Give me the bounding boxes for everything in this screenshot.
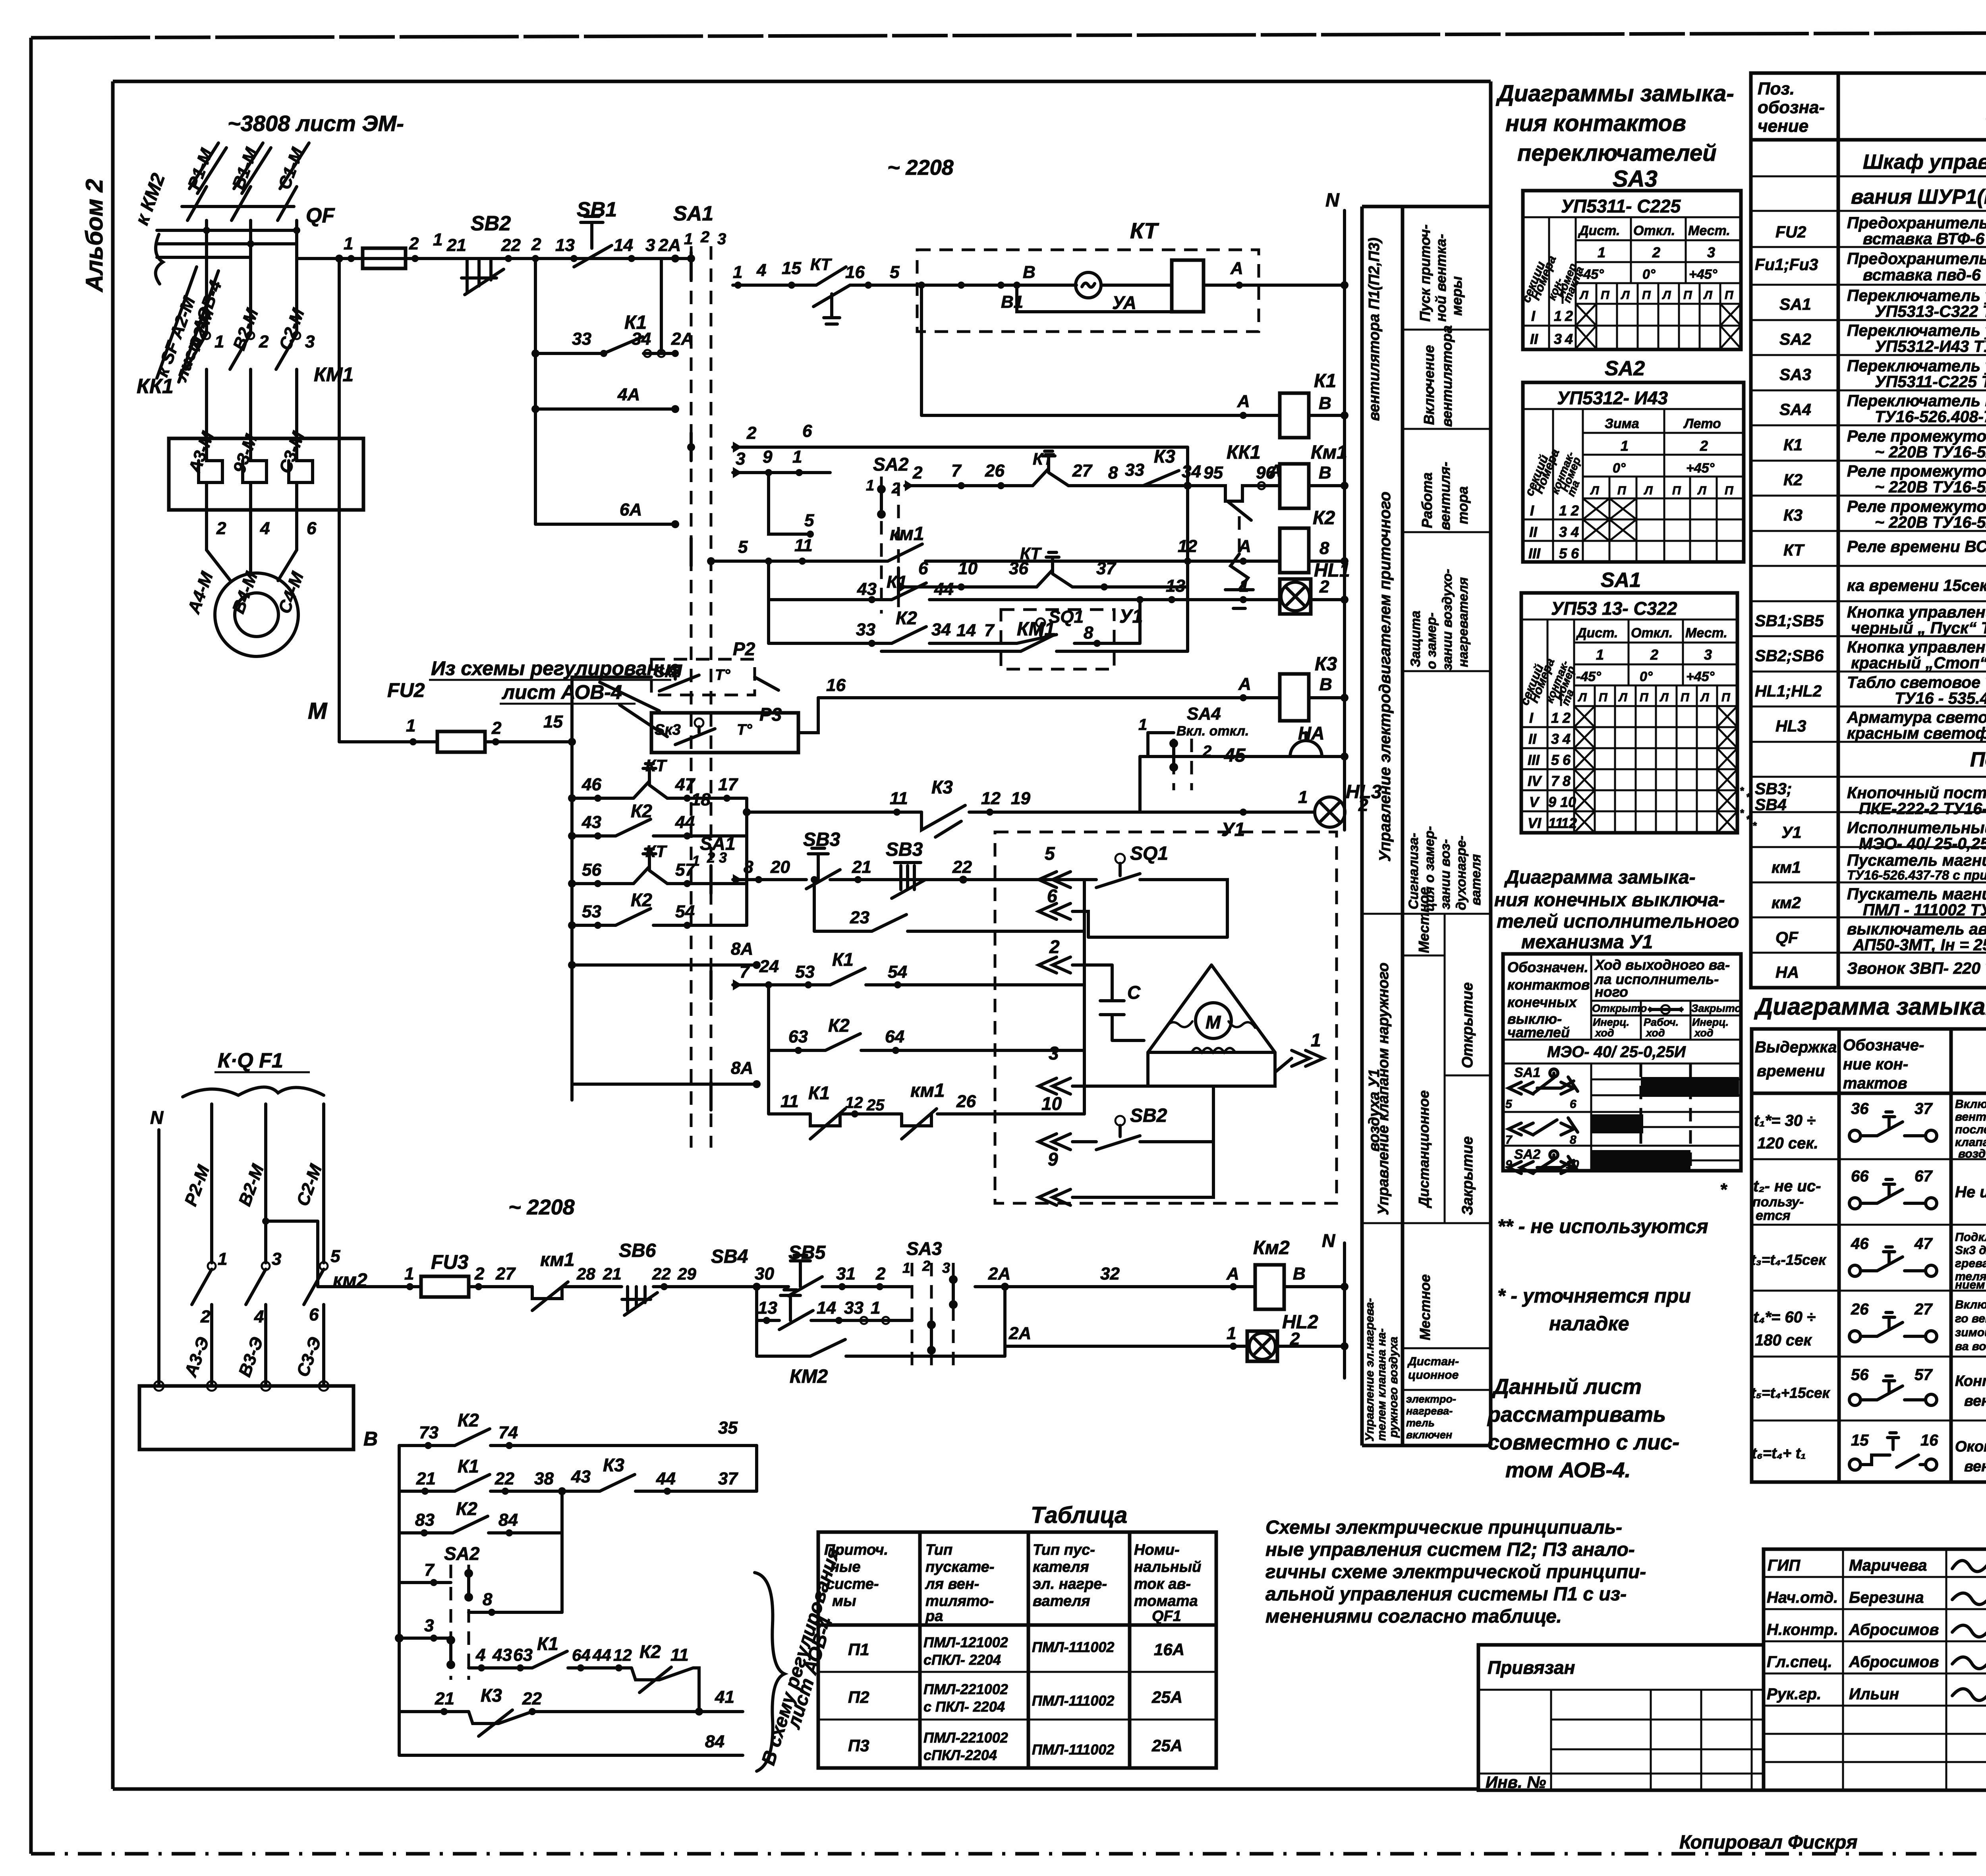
svg-text:Предохранитель прс-6-П; ~380В: Предохранитель прс-6-П; ~380В. Плавкая <box>1847 249 1986 268</box>
rung 63 K2 64 <box>769 985 1084 1050</box>
svg-text:3: 3 <box>645 235 655 255</box>
long rung 18 11 K3 12 19 HL3 <box>747 811 1315 814</box>
svg-text:чение: чение <box>1758 116 1808 136</box>
svg-text:1: 1 <box>214 332 224 351</box>
svg-text:SA3: SA3 <box>1613 166 1658 192</box>
svg-text:го вентилятора: го вентилятора <box>1955 1312 1986 1325</box>
svg-text:N: N <box>150 1107 164 1128</box>
svg-text:1: 1 <box>1596 647 1604 663</box>
svg-text:6: 6 <box>1563 752 1571 768</box>
svg-text:К1: К1 <box>832 949 854 970</box>
svg-text:46: 46 <box>582 775 601 794</box>
svg-text:Sк2: Sк2 <box>655 664 681 681</box>
svg-text:Обозначе-: Обозначе- <box>1843 1036 1924 1054</box>
svg-text:15: 15 <box>1851 1432 1869 1449</box>
svg-text:ход: ход <box>1594 1027 1614 1039</box>
svg-text:Т°: Т° <box>715 667 730 683</box>
page outer border <box>31 32 1986 38</box>
rung 2-6 <box>733 447 1188 486</box>
svg-text:1: 1 <box>902 1260 910 1276</box>
contact diagram titles <box>1495 81 1734 192</box>
svg-text:1: 1 <box>1227 1324 1236 1343</box>
svg-text:УП5311- С225: УП5311- С225 <box>1561 196 1681 216</box>
svg-text:84: 84 <box>705 1732 724 1751</box>
svg-text:Ход выходного ва-: Ход выходного ва- <box>1594 957 1730 973</box>
svg-text:5: 5 <box>804 511 814 530</box>
svg-text:Дист.: Дист. <box>1576 625 1618 641</box>
svg-text:К2: К2 <box>456 1498 477 1519</box>
svg-text:Sк3: Sк3 <box>655 722 681 738</box>
svg-text:** - не используются: ** - не используются <box>1497 1215 1708 1237</box>
svg-text:зимой (после прогре-: зимой (после прогре- <box>1955 1326 1986 1339</box>
svg-text:10: 10 <box>1560 794 1576 810</box>
svg-text:3: 3 <box>1704 647 1712 663</box>
KT contact rung (top) <box>733 284 917 287</box>
svg-text:вания ШУР1(ШУР2; ШУР3): вания ШУР1(ШУР2; ШУР3) <box>1851 185 1986 208</box>
svg-text:красный „Стоп“ ТУ16 - 6: красный „Стоп“ ТУ16 - 642.015-84 <box>1851 654 1986 672</box>
svg-text:о замер-: о замер- <box>1424 612 1439 669</box>
svg-text:км2: км2 <box>1772 894 1801 912</box>
svg-text:7: 7 <box>984 621 995 640</box>
svg-text:ТУ16-526.437-78 с приставкой П: ТУ16-526.437-78 с приставкой ПКЛ-2204; Т… <box>1847 868 1986 882</box>
svg-text:пользу-: пользу- <box>1752 1195 1804 1210</box>
svg-text:ПМЛ-121002: ПМЛ-121002 <box>923 1634 1008 1650</box>
svg-text:15: 15 <box>543 712 563 731</box>
svg-text:t₁*= 30 ÷: t₁*= 30 ÷ <box>1754 1112 1816 1129</box>
svg-text:2: 2 <box>1562 710 1571 726</box>
svg-text:Зима: Зима <box>1605 416 1639 431</box>
bottom-left relay block <box>395 1410 844 1771</box>
svg-text:56: 56 <box>1851 1366 1869 1384</box>
svg-text:ПМЛ-111002: ПМЛ-111002 <box>1032 1639 1114 1655</box>
svg-text:Включение приточно-: Включение приточно- <box>1955 1298 1986 1311</box>
svg-text:14: 14 <box>817 1298 836 1318</box>
svg-text:вставка ВТФ-6 ТУ16-521.0: вставка ВТФ-6 ТУ16-521.037-75 <box>1863 230 1986 248</box>
contactor coil KM2 <box>1255 1265 1284 1309</box>
svg-text:27: 27 <box>495 1264 516 1283</box>
svg-text:6: 6 <box>1570 1098 1576 1111</box>
svg-text:7: 7 <box>951 461 962 481</box>
svg-text:QF1: QF1 <box>1152 1608 1181 1625</box>
svg-text:Местное: Местное <box>1417 1274 1433 1340</box>
svg-text:воздуха У1: воздуха У1 <box>1366 1069 1383 1152</box>
svg-text:К3: К3 <box>1783 506 1802 524</box>
svg-text:Работа: Работа <box>1419 473 1435 528</box>
note text about P2 P3 <box>1265 1517 1646 1627</box>
svg-text:А: А <box>1230 259 1243 278</box>
rung 43 K1 44 13 1 HL1 <box>769 598 1280 601</box>
svg-text:74: 74 <box>498 1423 518 1442</box>
svg-text:Выдержка: Выдержка <box>1755 1038 1837 1056</box>
branch 23 <box>814 880 1084 931</box>
capacitor C <box>1072 965 1144 1040</box>
svg-text:КТ: КТ <box>1130 218 1159 243</box>
svg-text:Данный лист: Данный лист <box>1492 1375 1642 1399</box>
svg-text:13: 13 <box>555 235 575 255</box>
svg-text:УП53 13- С322: УП53 13- С322 <box>1551 598 1677 619</box>
svg-text:95: 95 <box>1204 463 1223 483</box>
svg-text:7: 7 <box>740 962 750 982</box>
contactor coil KM1 <box>1280 464 1309 508</box>
svg-text:21: 21 <box>446 235 466 255</box>
svg-text:черный „ Пуск“ ТУ16: черный „ Пуск“ ТУ16 - 642.015-84 <box>1851 619 1986 637</box>
svg-text:47: 47 <box>675 775 695 794</box>
lamp HL2 <box>1247 1331 1277 1361</box>
svg-text:КТ: КТ <box>810 255 832 274</box>
svg-text:Альбом 2: Альбом 2 <box>81 179 108 293</box>
svg-text:2А: 2А <box>988 1264 1010 1283</box>
svg-text:С: С <box>1127 982 1141 1003</box>
svg-text:1: 1 <box>1138 716 1147 733</box>
switch table SA3 <box>1519 191 1741 349</box>
svg-text:П: П <box>1721 691 1731 704</box>
svg-text:меры: меры <box>1449 276 1465 316</box>
svg-text:Р3: Р3 <box>759 704 782 725</box>
svg-text:М: М <box>308 698 328 724</box>
svg-text:венткамеры: венткамеры <box>1964 1458 1986 1475</box>
svg-text:7: 7 <box>1551 773 1560 789</box>
svg-text:43: 43 <box>582 813 601 832</box>
svg-text:Березина: Березина <box>1849 1589 1924 1606</box>
svg-text:SA4: SA4 <box>1779 400 1811 419</box>
svg-text:ход: ход <box>1694 1027 1714 1039</box>
svg-text:В1: В1 <box>1001 292 1023 312</box>
svg-text:нагрева-: нагрева- <box>1406 1405 1453 1417</box>
svg-text:А: А <box>1237 392 1250 411</box>
svg-text:6: 6 <box>1571 545 1579 562</box>
svg-text:7: 7 <box>424 1560 435 1580</box>
svg-text:П: П <box>1725 289 1734 302</box>
svg-text:УП5311-С225 ТУ16-524.074-: УП5311-С225 ТУ16-524.074-75 <box>1875 372 1986 391</box>
svg-text:У1: У1 <box>1119 606 1143 627</box>
svg-text:пускате-: пускате- <box>925 1559 994 1575</box>
svg-text:11: 11 <box>794 536 813 555</box>
8A rungs <box>572 965 757 1084</box>
svg-text:-45°: -45° <box>1576 669 1601 684</box>
svg-text:+45°: +45° <box>1686 461 1715 476</box>
svg-text:HL1;HL2: HL1;HL2 <box>1755 682 1822 700</box>
svg-text:26: 26 <box>956 1092 976 1111</box>
svg-text:1: 1 <box>344 234 353 253</box>
svg-text:Лето: Лето <box>1683 416 1721 431</box>
svg-text:2: 2 <box>1652 244 1660 261</box>
svg-text:Sк3 для контроля про-: Sк3 для контроля про- <box>1955 1244 1986 1257</box>
svg-text:нагревателя: нагревателя <box>1456 577 1471 667</box>
svg-text:12: 12 <box>845 1094 863 1112</box>
svg-text:22: 22 <box>501 235 521 255</box>
svg-text:телей исполнительного: телей исполнительного <box>1497 911 1739 932</box>
svg-text:Вкл. откл.: Вкл. откл. <box>1177 724 1249 739</box>
row3 symbol SA2 9-10 <box>1505 1147 1579 1173</box>
svg-text:11: 11 <box>780 1092 799 1111</box>
svg-text:1: 1 <box>684 230 693 248</box>
svg-text:телем клапана на-: телем клапана на- <box>1375 1328 1388 1441</box>
svg-text:HL3: HL3 <box>1775 717 1806 735</box>
svg-text:10: 10 <box>1041 1093 1062 1114</box>
svg-text:тель: тель <box>1406 1417 1435 1429</box>
svg-text:t₂- не ис-: t₂- не ис- <box>1753 1177 1821 1195</box>
svg-text:12: 12 <box>981 789 1001 808</box>
svg-text:SA1: SA1 <box>1601 569 1641 592</box>
svg-text:Л: Л <box>1697 484 1707 497</box>
svg-text:45: 45 <box>1224 745 1246 766</box>
svg-text:64: 64 <box>572 1646 591 1664</box>
svg-text:Откл.: Откл. <box>1631 625 1673 641</box>
svg-text:венткамеры: венткамеры <box>1964 1393 1986 1409</box>
svg-text:9: 9 <box>763 447 773 467</box>
svg-text:К1: К1 <box>1783 436 1802 454</box>
svg-text:33: 33 <box>844 1298 864 1318</box>
svg-text:1: 1 <box>692 853 700 869</box>
svg-text:ПМЛ-221002: ПМЛ-221002 <box>923 1681 1008 1697</box>
svg-text:Диаграмма замыкания контакто: Диаграмма замыкания контактов реле време… <box>1754 993 1986 1020</box>
svg-text:Мест.: Мест. <box>1688 223 1730 238</box>
svg-text:67: 67 <box>1915 1168 1933 1185</box>
svg-text:15: 15 <box>782 259 801 278</box>
svg-text:Включение: Включение <box>1421 345 1437 425</box>
svg-text:ния контактов: ния контактов <box>1505 110 1686 136</box>
svg-text:SB1;SB5: SB1;SB5 <box>1755 612 1824 630</box>
svg-text:зании воздухо-: зании воздухо- <box>1440 569 1455 670</box>
MEO limit switch table <box>1503 954 1741 1173</box>
svg-text:К3: К3 <box>1315 654 1337 675</box>
svg-text:*: * <box>1720 1180 1727 1199</box>
svg-text:электро-: электро- <box>1406 1393 1456 1405</box>
svg-text:2: 2 <box>1290 1329 1300 1349</box>
svg-text:120 сек.: 120 сек. <box>1757 1135 1818 1152</box>
svg-text:НL2: НL2 <box>1282 1312 1318 1333</box>
svg-text:Закрыто: Закрыто <box>1691 1002 1741 1014</box>
svg-text:ного: ного <box>1595 984 1628 1000</box>
svg-text:21: 21 <box>416 1469 436 1488</box>
svg-text:0°: 0° <box>1613 461 1626 476</box>
svg-text:2: 2 <box>1571 502 1579 519</box>
svg-text:180 сек: 180 сек <box>1755 1332 1812 1349</box>
svg-text:36: 36 <box>1851 1100 1869 1117</box>
svg-text:вставка пвд-6 ТУ16-522.011-: вставка пвд-6 ТУ16-522.011-74 <box>1863 266 1986 284</box>
svg-text:N: N <box>1325 190 1340 211</box>
svg-text:2: 2 <box>1319 577 1329 596</box>
svg-text:Закрытие: Закрытие <box>1459 1136 1476 1215</box>
svg-text:обозна-: обозна- <box>1758 98 1825 117</box>
svg-text:тилято-: тилято- <box>925 1593 994 1610</box>
svg-text:24: 24 <box>759 957 779 976</box>
svg-text:сПКЛ- 2204: сПКЛ- 2204 <box>923 1652 1001 1668</box>
svg-text:57: 57 <box>1915 1366 1933 1384</box>
svg-text:3: 3 <box>717 230 726 248</box>
svg-text:SВ6: SВ6 <box>619 1240 656 1261</box>
svg-text:времени: времени <box>1757 1062 1825 1080</box>
svg-text:К·Q F1: К·Q F1 <box>218 1049 283 1072</box>
svg-text:t₄*= 60 ÷: t₄*= 60 ÷ <box>1753 1309 1816 1326</box>
svg-text:VI: VI <box>1528 815 1542 831</box>
svg-text:13: 13 <box>1166 576 1185 596</box>
svg-text:П: П <box>1617 484 1627 497</box>
HL2 rung <box>1005 1345 1345 1348</box>
main rail 1 <box>297 257 691 260</box>
svg-text:1: 1 <box>406 716 415 735</box>
svg-text:ход: ход <box>1645 1027 1665 1039</box>
svg-text:В: В <box>1319 463 1331 483</box>
svg-text:5: 5 <box>738 537 748 557</box>
svg-text:III: III <box>1528 752 1540 768</box>
svg-text:2: 2 <box>474 1264 485 1283</box>
svg-text:QF: QF <box>306 204 335 227</box>
svg-text:3: 3 <box>305 332 315 351</box>
svg-text:Обозначен.: Обозначен. <box>1507 959 1588 975</box>
KM1 aux rung <box>881 650 1188 653</box>
svg-text:Дист.: Дист. <box>1578 223 1620 238</box>
svg-text:К2: К2 <box>631 890 652 910</box>
svg-text:33: 33 <box>572 329 591 349</box>
svg-text:вателя: вателя <box>1468 854 1484 905</box>
svg-text:К2: К2 <box>458 1410 479 1430</box>
svg-text:~ 220В ТУ16: ~ 220В ТУ16-523.622-85 <box>1875 478 1986 496</box>
svg-text:5: 5 <box>1551 752 1559 768</box>
svg-text:К3: К3 <box>1154 446 1175 467</box>
curly brace <box>755 1573 784 1771</box>
svg-text:4: 4 <box>260 519 270 538</box>
svg-text:ТУ16 - 535.424-70: ТУ16 - 535.424-70 <box>1895 689 1986 707</box>
svg-text:По месту: По месту <box>1970 748 1986 771</box>
svg-text:+45°: +45° <box>1689 267 1717 282</box>
svg-text:Диаграммы замыка-: Диаграммы замыка- <box>1495 81 1734 106</box>
rung 11 K1 12 25 KM1 26 <box>769 1050 1084 1126</box>
svg-text:Номи-: Номи- <box>1134 1542 1180 1558</box>
svg-text:вентилятора: вентилятора <box>1439 325 1455 427</box>
svg-text:54: 54 <box>675 902 695 921</box>
svg-text:SA2: SA2 <box>1605 357 1645 380</box>
svg-text:Включение приточного: Включение приточного <box>1955 1098 1986 1111</box>
rung 84 bottom <box>399 1754 743 1757</box>
svg-text:К1: К1 <box>808 1083 830 1103</box>
rung 21 K3 22 41 <box>399 1712 743 1724</box>
svg-text:1: 1 <box>1298 787 1308 807</box>
svg-text:N: N <box>1322 1230 1335 1251</box>
svg-text:км1: км1 <box>890 523 924 544</box>
svg-text:II: II <box>1529 524 1538 540</box>
left attach box <box>1478 1645 1764 1791</box>
svg-text:ПМЛ-111002: ПМЛ-111002 <box>1032 1741 1114 1758</box>
svg-text:SВ5: SВ5 <box>788 1242 826 1263</box>
svg-text:SA2: SA2 <box>444 1543 480 1564</box>
rung 7 24 53 K1 54 <box>733 983 1084 986</box>
svg-text:5: 5 <box>330 1247 340 1266</box>
svg-text:IV: IV <box>1528 773 1542 789</box>
svg-text:нальный: нальный <box>1134 1559 1201 1575</box>
svg-text:64: 64 <box>885 1027 904 1046</box>
svg-text:8: 8 <box>483 1590 493 1609</box>
svg-text:43: 43 <box>492 1645 512 1665</box>
svg-text:Тип пус-: Тип пус- <box>1033 1542 1095 1558</box>
svg-text:НА: НА <box>1775 963 1799 981</box>
svg-text:73: 73 <box>419 1423 439 1442</box>
svg-text:34: 34 <box>632 329 651 349</box>
KM1 coil rung <box>905 484 1345 487</box>
svg-text:П: П <box>1599 691 1608 704</box>
svg-text:томата: томата <box>1134 1593 1198 1610</box>
svg-text:с ПКЛ- 2204: с ПКЛ- 2204 <box>923 1698 1005 1715</box>
svg-text:44: 44 <box>656 1469 676 1488</box>
svg-text:П: П <box>1672 484 1681 497</box>
svg-text:12: 12 <box>1178 537 1197 556</box>
right sidebar column grid <box>1362 81 1491 1446</box>
svg-text:1: 1 <box>1239 576 1249 596</box>
svg-text:11: 11 <box>670 1645 689 1665</box>
limit-switch diagram title <box>1494 867 1739 953</box>
schematic frame <box>113 81 1491 1789</box>
svg-text:П2: П2 <box>848 1688 869 1706</box>
SB5 rung <box>757 1287 912 1320</box>
svg-text:SВ4: SВ4 <box>711 1246 748 1267</box>
svg-text:К3: К3 <box>931 777 953 797</box>
signature table <box>1764 1549 1986 1790</box>
svg-text:2: 2 <box>1650 647 1658 663</box>
svg-text:Рук.гр.: Рук.гр. <box>1767 1685 1821 1703</box>
svg-text:2: 2 <box>746 423 757 443</box>
svg-text:83: 83 <box>415 1510 435 1530</box>
lamp HL3 <box>1315 797 1345 827</box>
svg-text:~ 2208: ~ 2208 <box>887 156 954 179</box>
svg-text:Инв. №: Инв. № <box>1486 1773 1546 1791</box>
svg-text:1: 1 <box>866 477 874 494</box>
limit switch SQ1 <box>1115 854 1125 863</box>
motor leads <box>207 510 297 581</box>
svg-text:Ильин: Ильин <box>1849 1685 1899 1703</box>
three tie lines <box>157 230 297 257</box>
svg-text:Контроль пуска: Контроль пуска <box>1955 1373 1986 1390</box>
svg-text:после открытия: после открытия <box>1955 1123 1986 1136</box>
svg-text:А: А <box>1238 537 1251 556</box>
svg-text:Окончание пуска: Окончание пуска <box>1955 1438 1986 1455</box>
svg-text:Л: Л <box>1700 691 1710 704</box>
svg-text:43: 43 <box>571 1467 591 1486</box>
svg-text:46: 46 <box>1851 1235 1869 1253</box>
svg-text:7: 7 <box>1505 1133 1513 1146</box>
svg-text:П: П <box>1725 484 1734 497</box>
svg-text:35: 35 <box>718 1418 738 1438</box>
svg-text:Абросимов: Абросимов <box>1849 1653 1939 1671</box>
svg-text:мы: мы <box>832 1593 856 1610</box>
svg-text:П: П <box>1642 289 1651 302</box>
K1 coil rung <box>922 285 1345 415</box>
svg-text:ния конечных выключа-: ния конечных выключа- <box>1494 890 1725 911</box>
svg-text:2: 2 <box>409 234 419 253</box>
svg-text:Таблица: Таблица <box>1031 1502 1127 1528</box>
svg-text:3: 3 <box>736 449 745 469</box>
svg-text:ГИП: ГИП <box>1768 1557 1801 1574</box>
svg-text:22: 22 <box>952 857 972 877</box>
relay coil K3 <box>1280 674 1309 721</box>
svg-text:16: 16 <box>1920 1432 1938 1449</box>
svg-text:* - уточняется при: * - уточняется при <box>1497 1285 1691 1307</box>
svg-text:16: 16 <box>826 676 846 695</box>
svg-text:Т°: Т° <box>737 722 752 738</box>
svg-text:66: 66 <box>1851 1168 1869 1185</box>
svg-text:Звонок ЗВП- 220 ТУ16 - 739.: Звонок ЗВП- 220 ТУ16 - 739.059-76 <box>1847 959 1986 977</box>
phase feeder labels <box>184 145 307 192</box>
svg-text:альной управления системы П: альной управления системы П1 с из- <box>1265 1584 1627 1605</box>
svg-text:Местное: Местное <box>1416 887 1432 953</box>
svg-text:вентилятора летом: вентилятора летом <box>1955 1110 1986 1123</box>
phase verticals <box>207 220 297 334</box>
svg-text:19: 19 <box>1011 789 1030 808</box>
U1 dashed box <box>995 832 1337 1203</box>
svg-text:I: I <box>1531 308 1536 324</box>
svg-text:К2: К2 <box>896 608 917 628</box>
svg-text:t₃=t₄-15сек: t₃=t₄-15сек <box>1751 1252 1827 1268</box>
svg-text:27: 27 <box>1072 461 1093 481</box>
